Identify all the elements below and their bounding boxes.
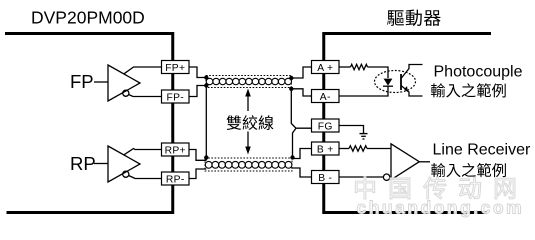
resistor R1 (A+ series): [339, 66, 351, 68]
wire RP+ to pair: [189, 150, 206, 161]
wire receiver output: [419, 161, 430, 163]
junction dots upper-left: [204, 75, 208, 79]
svg-text:B +: B +: [317, 144, 334, 155]
svg-text:B -: B -: [318, 173, 332, 184]
svg-text:FP-: FP-: [167, 92, 185, 103]
twisted pair cable lower (dotted sheath): [205, 158, 292, 171]
label 輸入之範例 (line receiver example): [431, 163, 506, 177]
junction dot link bottom: [204, 155, 208, 159]
line receiver U4: [391, 144, 419, 180]
photocoupler dashed ellipse U3: [375, 71, 416, 93]
svg-text:DVP20PM00D: DVP20PM00D: [31, 7, 145, 27]
shield link left: [205, 86, 207, 161]
terminal FP+: [162, 61, 190, 74]
twisted pair coil lower: [205, 161, 292, 168]
svg-text:Photocouple: Photocouple: [434, 64, 523, 81]
svg-text:FP+: FP+: [165, 63, 185, 74]
svg-text:chuandong.com: chuandong.com: [357, 198, 525, 218]
terminal FG: [312, 119, 340, 132]
wire pair to A-: [291, 89, 311, 96]
wire FP+ to pair: [189, 67, 206, 78]
twisted pair cable upper (dotted sheath): [206, 76, 291, 88]
terminal B-: [312, 171, 340, 184]
line driver U1 (FP): [108, 65, 140, 101]
phototransistor Q1: [400, 74, 402, 90]
terminal RP-: [162, 172, 190, 185]
wire pair to B+: [291, 149, 311, 159]
terminal RP+: [162, 143, 190, 156]
inverting bubble: [383, 174, 389, 180]
svg-text:FP: FP: [70, 71, 94, 92]
line driver U2 (RP): [108, 146, 140, 182]
wire resistor to receiver: [367, 148, 391, 150]
twisted pair coil upper: [206, 78, 291, 84]
junction dot shield/B+: [290, 155, 294, 159]
ground symbol: [360, 134, 368, 139]
wire pair to B-: [291, 168, 311, 177]
label 驅動器 (driver): [387, 10, 440, 26]
emitter arrow: [404, 86, 410, 93]
terminal A+: [312, 61, 340, 74]
wire FP- to pair: [189, 86, 206, 97]
svg-text:FG: FG: [318, 121, 333, 132]
svg-text:Line Receiver: Line Receiver: [433, 142, 532, 159]
wire LED cathode to A-: [339, 86, 388, 96]
wire FG to ground: [339, 126, 364, 134]
wire RP- to pair: [189, 169, 206, 179]
wire FP+ tap: [124, 67, 162, 74]
svg-text:A +: A +: [317, 63, 333, 74]
svg-text:RP-: RP-: [166, 174, 185, 185]
left PLC outline DVP20PM00D: [5, 34, 174, 213]
wire FP input: [94, 81, 108, 83]
svg-text:RP+: RP+: [165, 145, 186, 156]
wire resistor to LED: [368, 67, 389, 78]
wire FP- tap: [129, 95, 162, 97]
svg-text:A-: A-: [320, 92, 331, 103]
arrow down to lower pair: [247, 132, 249, 149]
wire B- to bubble: [339, 176, 383, 178]
wire RP+ tap: [124, 149, 162, 155]
terminal FP-: [162, 90, 190, 103]
terminal A-: [312, 90, 340, 103]
inverting bubble FP-: [123, 90, 129, 96]
svg-text:RP: RP: [70, 153, 96, 174]
resistor R2 (B+ series): [339, 148, 349, 150]
right driver outline: [322, 34, 491, 213]
label 輸入之範例 (photocoupler example): [431, 83, 506, 97]
inverting bubble RP-: [123, 171, 129, 177]
junction dots upper-right: [289, 76, 293, 80]
terminal B+: [312, 142, 340, 155]
label 雙絞線 (twisted pair): [227, 115, 274, 130]
watermark 中国传动网: [355, 177, 515, 199]
wire pair to A+: [291, 67, 311, 78]
arrow up to upper pair: [247, 95, 249, 111]
LED D1 of photocoupler: [384, 79, 393, 86]
wire RP input: [94, 163, 108, 165]
shield drain right to FG: [291, 89, 311, 158]
wire RP- tap: [129, 176, 162, 179]
